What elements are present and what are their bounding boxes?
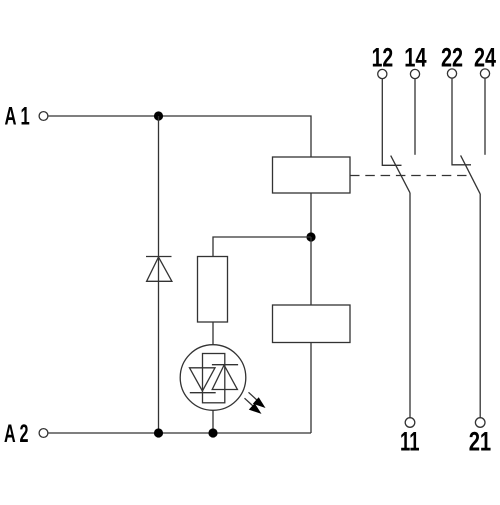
terminal 12 [378,69,387,78]
terminal 11 [405,418,415,428]
contact blade pole 2 [461,155,481,194]
node B junction [306,232,315,241]
wire common pole 1 to terminal 11 [409,193,411,418]
diode V1 (suppression diode, cathode up) [146,257,172,282]
svg-text:24: 24 [474,42,496,72]
label 24 [474,42,496,72]
wire terminal 22 (NC contact with foot) [452,78,471,165]
LED light arrow 1 [249,392,266,408]
terminal 22 [447,69,456,78]
LED light arrow 2 [245,398,262,414]
wire A1 to coil K1 (horizontal then down) [48,116,311,157]
wire node B to resistor R1 top [213,237,311,257]
wire common pole 2 to terminal 21 [479,194,481,418]
wire coil K1 bottom to node B [310,193,312,237]
wire node B to coil K2 top [310,237,312,305]
label 21 [469,427,492,457]
label A2 [4,420,29,448]
svg-text:11: 11 [400,427,420,457]
svg-text:A 1: A 1 [5,103,30,131]
terminal A1 [39,112,48,121]
LED internal resistor body [203,354,225,403]
svg-text:A 2: A 2 [4,420,29,448]
terminal 21 [475,418,485,428]
wire resistor R1 to LED indicator [212,322,214,345]
contact blade pole 1 [391,156,410,193]
svg-text:14: 14 [404,42,426,72]
wire LED bottom to A2 rail [212,410,214,433]
label 22 [441,42,463,72]
wire terminal 12 (NC contact with foot) [382,79,401,166]
node junction A2/diode branch [154,428,163,437]
wire left vertical branch (diode branch) [158,116,160,433]
node junction on A1 wire [154,111,163,120]
wire terminal 24 (NO contact) [484,78,486,155]
label 14 [404,42,426,72]
terminal 14 [410,69,419,78]
wire coil K2 bottom to A2 rail [310,343,312,434]
svg-text:22: 22 [441,42,463,72]
svg-text:12: 12 [372,42,394,72]
mechanical linkage (dashed) [350,175,467,177]
terminal 24 [480,69,489,78]
LED indicator H1 (circle) [180,345,246,411]
LED internal diode up (right) [212,365,238,390]
label A1 [5,103,30,131]
resistor R1 [198,257,228,323]
svg-text:21: 21 [469,427,492,457]
wire A2 rail [48,432,311,434]
terminal A2 [39,429,48,438]
relay coil K2 [273,305,351,343]
node junction A2/LED branch [208,428,217,437]
relay coil K1 [273,157,351,193]
label 11 [400,427,420,457]
wire terminal 14 (NO contact) [414,79,416,155]
LED internal diode down (left) [190,368,216,393]
label 12 [372,42,394,72]
